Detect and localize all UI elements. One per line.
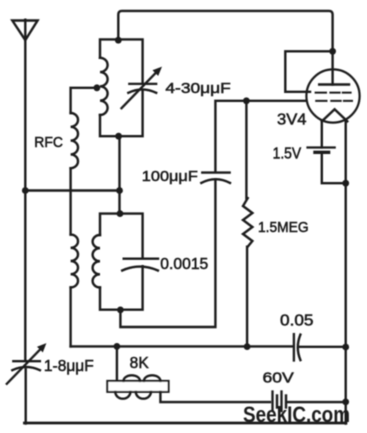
svg-text:100μμF: 100μμF xyxy=(142,168,198,185)
svg-text:8K: 8K xyxy=(130,355,150,372)
svg-text:0.0015: 0.0015 xyxy=(160,256,208,273)
svg-text:60V: 60V xyxy=(263,370,294,387)
svg-text:SeekIC.com: SeekIC.com xyxy=(243,402,350,427)
svg-text:0.05: 0.05 xyxy=(280,312,314,329)
svg-text:3V4: 3V4 xyxy=(277,112,307,129)
svg-text:1.5MEG: 1.5MEG xyxy=(258,219,309,236)
svg-text:1.5V: 1.5V xyxy=(273,146,302,163)
svg-text:1-8μμF: 1-8μμF xyxy=(44,358,94,375)
svg-text:RFC: RFC xyxy=(34,135,63,151)
svg-text:4-30μμF: 4-30μμF xyxy=(165,80,230,97)
